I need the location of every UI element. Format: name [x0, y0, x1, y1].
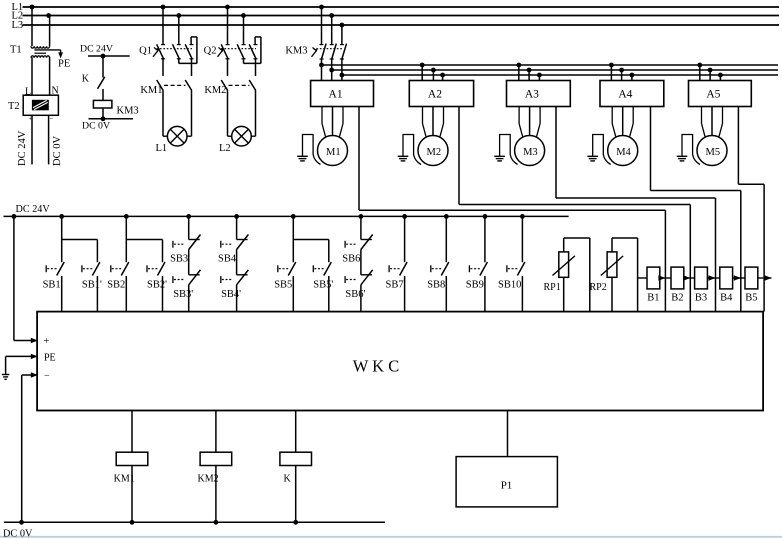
svg-text:P1: P1	[501, 480, 513, 492]
svg-text:Q2: Q2	[204, 46, 217, 57]
svg-text:SB6': SB6'	[345, 289, 365, 300]
svg-text:KM3: KM3	[285, 46, 307, 57]
svg-text:SB2': SB2'	[147, 280, 167, 291]
svg-text:−: −	[50, 115, 54, 123]
svg-text:+: +	[29, 115, 33, 123]
svg-text:SB5': SB5'	[313, 280, 333, 291]
svg-text:KM2: KM2	[198, 473, 219, 484]
svg-text:T2: T2	[8, 101, 20, 112]
svg-text:B5: B5	[745, 293, 757, 304]
svg-text:K: K	[284, 473, 292, 484]
svg-text:SB10: SB10	[498, 280, 521, 291]
svg-text:SB1: SB1	[43, 280, 61, 291]
svg-text:−: −	[44, 371, 50, 382]
svg-text:W K C: W K C	[353, 357, 399, 376]
svg-text:DC 0V: DC 0V	[52, 136, 63, 166]
svg-text:PE: PE	[58, 59, 70, 70]
svg-text:RP2: RP2	[590, 282, 607, 293]
svg-text:KM1: KM1	[114, 473, 135, 484]
svg-text:L2: L2	[219, 143, 231, 154]
svg-text:M5: M5	[706, 147, 721, 158]
svg-text:B2: B2	[671, 293, 683, 304]
svg-text:M1: M1	[326, 147, 341, 158]
svg-text:M3: M3	[523, 147, 538, 158]
svg-text:B3: B3	[695, 293, 707, 304]
svg-text:M4: M4	[616, 147, 631, 158]
svg-text:DC 0V: DC 0V	[3, 529, 33, 539]
svg-text:Q1: Q1	[139, 46, 152, 57]
svg-text:SB3': SB3'	[173, 289, 193, 300]
svg-text:+: +	[44, 336, 50, 347]
svg-text:RP1: RP1	[544, 282, 561, 293]
svg-text:A3: A3	[525, 89, 539, 101]
svg-text:SB3: SB3	[170, 253, 188, 264]
svg-text:SB8: SB8	[427, 280, 445, 291]
svg-text:DC 24V: DC 24V	[17, 130, 28, 166]
svg-text:SB9: SB9	[466, 280, 484, 291]
svg-text:PE: PE	[44, 352, 56, 363]
svg-text:DC 24V: DC 24V	[16, 204, 51, 215]
svg-text:SB2: SB2	[107, 280, 125, 291]
svg-text:L1: L1	[156, 143, 168, 154]
svg-text:DC 0V: DC 0V	[82, 121, 110, 132]
svg-text:M2: M2	[427, 147, 442, 158]
svg-text:SB4: SB4	[218, 253, 237, 264]
svg-text:A5: A5	[706, 89, 720, 101]
svg-text:A4: A4	[618, 89, 632, 101]
svg-text:KM2: KM2	[204, 85, 226, 96]
svg-text:KM1: KM1	[140, 85, 162, 96]
svg-text:SB7: SB7	[386, 280, 404, 291]
svg-text:DC 24V: DC 24V	[80, 44, 113, 55]
svg-text:SB5: SB5	[274, 280, 292, 291]
svg-text:SB1': SB1'	[82, 280, 102, 291]
svg-text:B1: B1	[647, 293, 659, 304]
svg-text:A1: A1	[329, 89, 343, 101]
svg-text:K: K	[82, 74, 90, 85]
svg-text:A2: A2	[428, 89, 442, 101]
svg-text:SB4': SB4'	[221, 289, 241, 300]
svg-text:L3: L3	[12, 20, 24, 31]
svg-text:SB6: SB6	[342, 253, 360, 264]
svg-text:B4: B4	[720, 293, 733, 304]
svg-text:KM3: KM3	[117, 106, 139, 117]
svg-text:T1: T1	[10, 45, 22, 56]
